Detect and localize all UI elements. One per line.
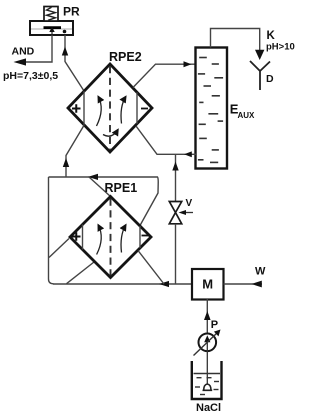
RPE2 right flow arrow [121,97,126,124]
wire left riser [49,177,54,284]
svg-text:D: D [266,73,274,85]
RPE2 left electrode line [83,91,85,125]
svg-text:V: V [186,198,193,209]
wire manifold to RPE1 top [89,177,111,197]
arrowhead K down [255,50,264,60]
electrodialysis cell RPE2 body [68,64,152,152]
RPE2 left flow arrow [97,97,102,127]
RPE2 plus [72,104,81,113]
svg-text:M: M [202,277,213,292]
tank body [192,361,222,399]
wire RPE1 left corner drop [49,239,69,258]
tank level dashes [195,378,219,395]
RPE1 plus [72,232,81,241]
RPE1 minus [142,235,149,237]
RPE2 minus [141,108,148,110]
wire V to M line [175,224,177,284]
svg-text:pH=7,3±0,5: pH=7,3±0,5 [3,70,58,82]
arrowhead up into RPE2 [63,158,69,167]
arrowhead left on manifold [88,174,98,180]
tank liquid level [194,373,221,375]
RPE1 right electrode line [139,226,141,248]
wire RPE2 to E_AUX top inlet [133,64,196,87]
arrowhead AND [14,58,27,65]
pressure regulator PR body [30,21,73,35]
dip tube [206,351,208,384]
wire RPE2 left outlet down [66,125,84,177]
PR needle arrow [51,31,53,35]
wire top manifold [49,177,159,226]
svg-text:RPE2: RPE2 [109,50,142,64]
wire pump to M [206,299,208,334]
wire E_AUX top to K outlet [211,29,260,51]
valve V [169,202,181,213]
RPE1 left electrode line [82,225,84,250]
svg-text:K: K [267,30,276,42]
wire M output manifold [53,283,192,285]
arrowhead up to junction [172,162,178,171]
svg-text:P: P [211,319,218,331]
pump internal arrow [206,342,208,351]
RPE1 left flow arrow [97,225,102,255]
suction strainer [203,384,213,390]
RPE2 right electrode line [136,92,138,123]
wire RPE1 lower right port [138,251,164,285]
wire valve V riser [175,154,177,201]
RPE1 right flow arrow [121,225,126,253]
PR spring [47,7,56,20]
valve V pointer [184,212,193,214]
arrowhead W [252,281,262,288]
RPE2 membrane dashed [109,66,111,150]
pump diagonal [194,333,218,356]
PR internal line [31,28,72,30]
PR spring housing [44,7,58,22]
svg-text:AND: AND [12,46,35,58]
arrowhead left on M line [159,281,169,287]
electrodialysis cell RPE1 body [70,197,151,278]
arrowhead toward RPE2 [184,151,192,157]
svg-text:AUX: AUX [238,111,256,120]
wire RPE1 lower-left port [67,262,95,284]
arrowhead into E_AUX [184,61,192,67]
RPE2 bottom cross arrow [103,130,118,137]
electrolyzer E_AUX body [196,48,228,169]
E_AUX fill dashes [198,58,223,163]
svg-text:W: W [255,266,266,278]
PR seat bar [44,26,62,29]
PR junction dot [63,30,67,34]
mixer M body [192,269,224,300]
arrowhead up into PR [62,47,68,56]
arrowhead up into M [204,311,211,320]
wire PR outlet to AND [26,35,52,62]
pump P body [199,334,217,352]
svg-text:RPE1: RPE1 [105,181,138,195]
wire E_AUX lower outlet to RPE2 [136,126,196,154]
svg-text:pH>10: pH>10 [266,42,295,53]
svg-text:NaCl: NaCl [196,402,221,414]
wire RPE2 to PR inlet [65,35,84,91]
drain funnel D [250,61,270,90]
svg-text:PR: PR [63,5,80,19]
wire W inlet [224,283,263,285]
RPE1 membrane dashed [110,199,112,276]
